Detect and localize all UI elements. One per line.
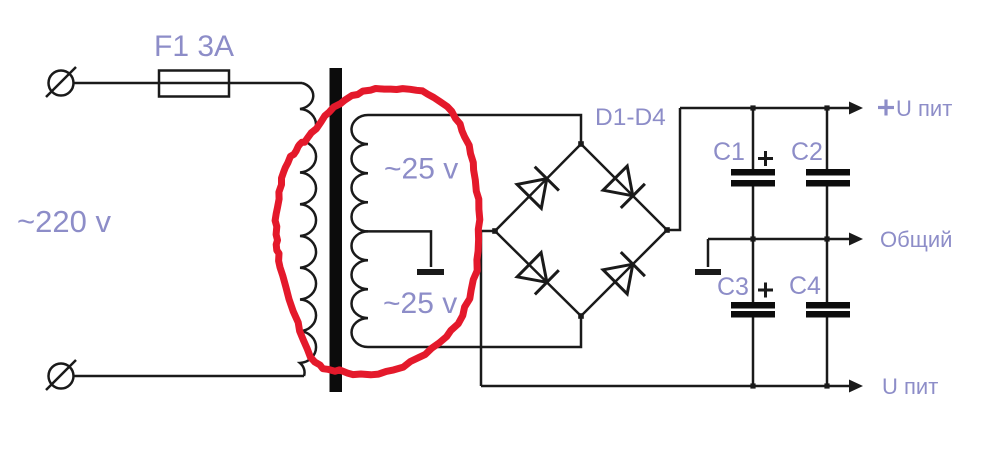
wire bridge left down to negative rail	[481, 231, 495, 386]
transformer T1 primary winding	[300, 83, 316, 376]
label +U пит	[878, 96, 952, 121]
wire center tap	[368, 231, 431, 267]
capacitor C2	[806, 169, 850, 187]
ground (center tap)	[417, 269, 444, 275]
red hand-drawn highlight around secondary windings	[275, 89, 480, 375]
junction dot bridge top	[578, 141, 584, 147]
diode D4 (lower-right arm)	[603, 252, 645, 294]
junction dot bridge left	[492, 228, 498, 234]
wire common rail to ground	[707, 239, 710, 267]
svg-text:~25 v: ~25 v	[384, 153, 458, 186]
transformer core	[330, 68, 343, 392]
wire terminal X2 to transformer primary	[74, 375, 305, 378]
capacitor C4	[806, 302, 850, 318]
arrow Общий	[849, 233, 863, 246]
arrow +U	[849, 102, 863, 115]
svg-text:~220 v: ~220 v	[17, 204, 111, 239]
wire negative rail U	[481, 385, 852, 388]
junction dot +U rail / C2	[824, 105, 829, 110]
polarity + of C1	[758, 151, 773, 166]
svg-text:Общий: Общий	[880, 227, 952, 252]
junction dot common rail / C1-C3	[750, 236, 755, 241]
wire positive rail +U	[680, 107, 852, 110]
junction dot common rail / C2-C4	[824, 236, 829, 241]
svg-text:D1-D4: D1-D4	[595, 104, 666, 131]
terminal X1 (mains input, top)	[46, 67, 76, 97]
wire capacitor column C1/C3	[752, 108, 755, 386]
wire bridge right to positive rail	[667, 108, 680, 230]
svg-text:C3: C3	[717, 273, 749, 301]
wire fuse to transformer primary	[229, 82, 302, 85]
junction dot negative rail / C3	[750, 383, 755, 388]
diode D1 (upper-left arm)	[517, 167, 559, 209]
fuse F1	[159, 71, 229, 97]
arrow U пит	[849, 380, 863, 393]
polarity + of C3	[758, 283, 773, 298]
terminal X2 (mains input, bottom)	[46, 360, 76, 390]
junction dot bridge right	[664, 227, 670, 233]
bridge rectifier diamond D1-D4	[495, 144, 667, 316]
svg-text:F1 3A: F1 3A	[154, 30, 234, 63]
transformer T1 secondary winding (lower half)	[352, 231, 368, 347]
svg-text:C4: C4	[789, 272, 821, 300]
wire secondary top to bridge top	[368, 115, 581, 144]
diode D2 (upper-right arm)	[603, 166, 645, 208]
junction dot bridge bottom	[578, 313, 584, 319]
wire secondary bottom to bridge bottom	[368, 316, 581, 347]
diode D3 (lower-left arm)	[517, 253, 559, 295]
svg-text:C2: C2	[791, 138, 823, 166]
junction dot negative rail / C4	[824, 383, 829, 388]
svg-text:U пит: U пит	[896, 96, 952, 121]
wire terminal X1 to fuse	[74, 82, 161, 85]
svg-text:U пит: U пит	[882, 374, 938, 399]
svg-text:~25 v: ~25 v	[383, 287, 457, 320]
wire capacitor column C2/C4	[826, 108, 829, 386]
capacitor C1	[731, 169, 775, 187]
wire common rail	[708, 238, 852, 241]
junction dot +U rail / C1	[750, 105, 755, 110]
ground (common)	[695, 269, 721, 275]
svg-text:C1: C1	[713, 138, 745, 166]
capacitor C3	[731, 302, 775, 318]
transformer T1 secondary winding (upper half)	[352, 115, 369, 231]
